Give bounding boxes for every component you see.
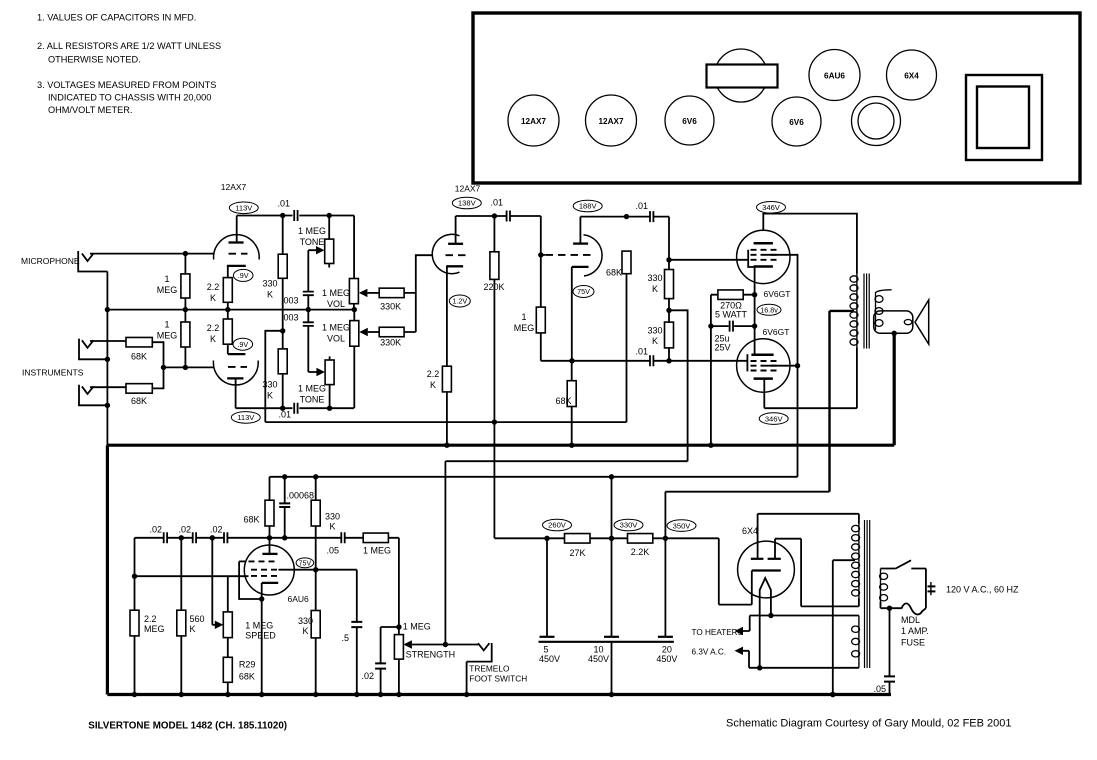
svg-text:2.2: 2.2 [144, 614, 157, 624]
svg-text:1 MEG: 1 MEG [322, 323, 350, 333]
svg-text:6AU6: 6AU6 [288, 594, 310, 604]
junction V1A plate node [280, 213, 285, 218]
resistor 330K (splitter lower) [665, 322, 674, 348]
wire mains right side [925, 569, 927, 609]
potentiometer 1 MEG STRENGTH [394, 635, 403, 695]
svg-text:330: 330 [298, 616, 313, 626]
grommet double circle on chassis [852, 97, 901, 146]
svg-text:220K: 220K [483, 282, 504, 292]
junction screen / 330K [313, 567, 318, 572]
svg-text:K: K [430, 380, 436, 390]
resistor 330K (V1B plate load) [278, 349, 287, 374]
svg-text:.01: .01 [635, 346, 648, 356]
power switch [881, 560, 926, 568]
label MDL 1 AMP. FUSE [901, 615, 929, 648]
label 2.2 K [207, 282, 220, 303]
wires 1 MEG grid leak [540, 255, 542, 361]
V1A grid dashes [229, 253, 248, 255]
svg-text:OTHERWISE NOTED.: OTHERWISE NOTED. [48, 55, 141, 65]
svg-text:2. ALL RESISTORS ARE 1/2 WATT: 2. ALL RESISTORS ARE 1/2 WATT UNLESS [37, 41, 221, 51]
wires 2.2K V1A / cathode elbow [227, 266, 229, 310]
svg-text:TREMELO: TREMELO [469, 663, 510, 673]
svg-text:SILVERTONE MODEL 1482 (CH. 185: SILVERTONE MODEL 1482 (CH. 185.11020) [88, 721, 287, 732]
label 330 K [647, 273, 662, 294]
6X4 filament [760, 578, 771, 668]
microphone jack J1 [78, 251, 107, 272]
V3 plate bar [754, 242, 773, 245]
capacitor .01 (cathode coupling) [650, 355, 653, 366]
svg-text:TONE: TONE [300, 237, 325, 247]
voltage callout 1.2V (V2A cathode) [449, 295, 470, 307]
wires 330K V1B plate load [282, 331, 284, 408]
V5 cathode [262, 583, 279, 599]
wires 1 MEG V1B [184, 310, 186, 368]
svg-text:3. VOLTAGES MEASURED FROM POIN: 3. VOLTAGES MEASURED FROM POINTS [37, 80, 216, 90]
tube V1A 12AX7 envelope [214, 235, 260, 260]
V1B plate bar [227, 377, 243, 379]
V2B grid dashes [546, 254, 591, 256]
svg-text:1 MEG: 1 MEG [363, 546, 391, 556]
tube socket 6V6 (first) [665, 96, 714, 145]
ground line first stage [107, 309, 354, 311]
wires 220K [493, 216, 495, 538]
svg-text:.05: .05 [326, 546, 339, 556]
svg-text:K: K [267, 290, 273, 300]
V4 grid bracket [746, 354, 748, 371]
capacitor .01 (V1A coupling) [294, 210, 297, 221]
svg-text:68K: 68K [243, 515, 259, 525]
resistor 330K (tremolo screen) [311, 611, 320, 638]
tone pot 2 wiper arrow [316, 368, 325, 376]
label 330 K [298, 616, 313, 636]
capacitor .01 (V2B plate coupling) [650, 211, 653, 222]
label 2.2 K [427, 369, 440, 390]
svg-text:2.2: 2.2 [427, 369, 440, 379]
svg-text:.00068: .00068 [287, 491, 315, 501]
note 2: resistors wattage [37, 41, 221, 65]
tube 6X4 envelope [738, 541, 795, 598]
junction 68K on bus [569, 443, 574, 448]
svg-text:120 V A.C., 60 HZ: 120 V A.C., 60 HZ [946, 585, 1019, 595]
wire V5 cathode to ground bus [261, 599, 263, 695]
junction .00068 bottom [282, 535, 287, 540]
junction 330K tremolo top [313, 474, 318, 479]
output transformer center tap wire [830, 311, 855, 492]
svg-text:.9V: .9V [237, 340, 248, 349]
svg-text:.01: .01 [277, 199, 290, 209]
svg-text:75V: 75V [299, 561, 312, 568]
junction 68K plate load top [624, 214, 629, 219]
junction splitter top (V3 grid) [666, 257, 671, 262]
V1B cathode bar [228, 353, 246, 355]
svg-text:75V: 75V [577, 287, 590, 296]
svg-text:2.2K: 2.2K [631, 547, 650, 557]
wire 68K plate load to B+ line [265, 274, 626, 422]
svg-text:MEG: MEG [144, 624, 165, 634]
V3 grid dashes [751, 249, 777, 251]
svg-text:560: 560 [190, 614, 205, 624]
svg-text:K: K [652, 284, 658, 294]
svg-text:FOOT SWITCH: FOOT SWITCH [469, 674, 527, 684]
wires 1 MEG V1A [184, 254, 186, 310]
junction 330V node [609, 536, 614, 541]
resistor 2.2K (V1B cathode) [223, 319, 232, 344]
resistor 2.2K (filter) [628, 534, 653, 544]
resistor 330K (tremolo feedback) [311, 500, 320, 526]
capacitor .5 (screen bypass) [351, 570, 362, 695]
mains plug prongs [928, 582, 936, 595]
capacitor .003 (instrument tone) [303, 322, 314, 326]
wire screens 330V rail [270, 476, 798, 478]
svg-text:6V6: 6V6 [682, 117, 697, 126]
svg-text:6X4: 6X4 [904, 71, 919, 80]
tube V3 6V6GT envelope [737, 230, 790, 283]
wire filter common to ground bus [611, 642, 613, 695]
svg-text:.01: .01 [635, 201, 648, 211]
label TREMELO FOOT SWITCH [469, 663, 527, 683]
wires 330K tremolo [315, 477, 317, 570]
svg-text:K: K [302, 626, 308, 636]
wire 350V rail to output transformer [665, 491, 829, 493]
filter capacitor common plate [539, 641, 674, 643]
V2A grid dashes [446, 254, 466, 256]
capacitor .003 (mic tone) [303, 292, 314, 296]
V5 plate bar [262, 553, 277, 555]
instrument jack J3 [79, 385, 107, 406]
svg-text:68K: 68K [556, 396, 572, 406]
capacitor 25u bypass [730, 321, 733, 332]
svg-text:MEG: MEG [157, 285, 178, 295]
svg-text:.003: .003 [281, 296, 299, 306]
speaker [874, 300, 929, 344]
junctions on ground line [183, 307, 188, 312]
wire V5 plate [269, 538, 271, 554]
label 1 MEG [514, 312, 535, 333]
svg-text:FUSE: FUSE [901, 638, 925, 648]
power transformer mains winding [880, 569, 888, 606]
svg-text:450V: 450V [588, 654, 609, 664]
voltage callout 350V [667, 520, 696, 532]
ground bus (upper) [107, 444, 894, 447]
wires splitter lower [668, 310, 670, 361]
capacitor .05 (line filter) [884, 608, 895, 694]
potentiometer 1 MEG VOL (instrument channel) [350, 310, 359, 409]
svg-text:OHM/VOLT METER.: OHM/VOLT METER. [48, 105, 132, 115]
heater arrow 2 [735, 647, 744, 655]
svg-text:MEG: MEG [514, 323, 535, 333]
junction 270 ohm return on bus [708, 443, 713, 448]
voltage callout 260V [543, 519, 572, 531]
svg-text:68K: 68K [606, 267, 622, 277]
resistor 68K (instrument jack upper) [126, 337, 152, 347]
junction strength top [396, 624, 401, 629]
wire mains bottom to winding [881, 602, 890, 608]
wires 560K [180, 538, 182, 695]
tube V5 6AU6 envelope [244, 545, 294, 595]
svg-text:12AX7: 12AX7 [455, 184, 481, 194]
resistor 2.2 MEG (tremolo grid) [130, 610, 139, 636]
svg-text:.02: .02 [178, 525, 191, 535]
svg-text:5 WATT: 5 WATT [715, 310, 747, 320]
svg-text:1 MEG: 1 MEG [403, 622, 431, 632]
svg-text:.9V: .9V [238, 271, 249, 280]
output transformer rectangle on chassis [707, 65, 778, 88]
wire V2B plate line [580, 217, 669, 260]
label 5 450V [539, 644, 560, 664]
wires 330K screen [315, 570, 317, 695]
junction tone tap [327, 213, 332, 218]
svg-text:2.2: 2.2 [207, 282, 220, 292]
label 25u 25V [715, 334, 731, 353]
svg-text:346V: 346V [762, 203, 781, 212]
wire R29 to ground bus [227, 682, 229, 694]
wire V2A plate node to V2B grid [540, 216, 542, 255]
wire V1B plate to coupling node [236, 378, 354, 408]
junction tremolo grid bus [132, 574, 137, 579]
V3 grid bracket [748, 250, 754, 267]
output transformer primary winding [850, 274, 858, 348]
junction 330K plate load lower [280, 406, 285, 411]
svg-text:TONE: TONE [300, 395, 325, 405]
label 330 K [325, 512, 340, 532]
output transformer core [864, 274, 869, 349]
junction speaker return [892, 331, 897, 336]
fuse MDL 1 AMP [890, 603, 926, 614]
svg-text:1 MEG: 1 MEG [298, 226, 326, 236]
svg-text:68K: 68K [239, 672, 255, 682]
svg-text:1: 1 [521, 312, 526, 322]
strength pot wiper arrow [403, 640, 478, 648]
wire 350V to rectifier cathode [664, 492, 666, 539]
capacitor .05 (tremolo output) [341, 532, 344, 543]
svg-text:330: 330 [647, 326, 662, 336]
voltage callout 113V (V1A plate) [229, 202, 258, 214]
6X4 cathode [752, 569, 781, 571]
heater top lead [742, 616, 859, 632]
chassis layout box [473, 13, 1080, 183]
tube V2A 12AX7 envelope [432, 234, 459, 273]
svg-text:6V6GT: 6V6GT [763, 327, 790, 337]
label 1 MEG [157, 320, 178, 341]
svg-text:.05: .05 [873, 684, 886, 694]
junction V5 cathode [259, 596, 264, 601]
junction cathode network [569, 358, 574, 363]
junction B+ feed on plate-load line [492, 419, 497, 424]
node V1B grid junction [183, 365, 188, 370]
label 330 K [262, 380, 277, 401]
svg-text:2.2: 2.2 [207, 323, 220, 333]
wire V4 plate to output transformer [764, 348, 857, 409]
V1A cathode bar [227, 265, 246, 267]
label 1 MEG TONE [298, 226, 326, 247]
svg-text:6V6GT: 6V6GT [764, 289, 791, 299]
svg-text:450V: 450V [539, 654, 560, 664]
svg-text:.02: .02 [149, 525, 162, 535]
capacitor .01 (V1B coupling) [294, 403, 297, 414]
svg-text:68K: 68K [131, 352, 147, 362]
wire mixer to V2A grid [404, 255, 433, 332]
tube V2B 12AX7 envelope [584, 235, 603, 276]
power transformer HV winding [852, 524, 860, 599]
voltage callout 75V (V2B cathode) [573, 286, 594, 298]
speed pot wiper arrow [212, 538, 223, 629]
wire cathode chain to V4 [754, 295, 756, 355]
label 330 K [647, 326, 662, 347]
voltage callout 346V (V3 plate) [757, 202, 786, 214]
capacitor .02 (phase shift 2) [193, 532, 196, 543]
junction filament to heater top lead [768, 613, 773, 618]
svg-text:.01: .01 [278, 410, 291, 420]
resistor 330K (splitter upper) [665, 270, 674, 299]
wire V3 screen to rail [767, 255, 798, 477]
potentiometer 1 MEG TONE (instrument channel) [325, 356, 334, 408]
wire jack J3 to 68K [90, 386, 126, 388]
wire V1A plate to coupling node [237, 216, 354, 243]
vol pot 2 wiper arrow [359, 328, 379, 336]
capacitor .02 (phase shift 3) [224, 532, 227, 543]
wires 68K tremolo [269, 477, 271, 538]
svg-text:12AX7: 12AX7 [521, 117, 546, 126]
junction 560K tap [179, 535, 184, 540]
svg-text:138V: 138V [458, 199, 477, 208]
resistor 68K (tremolo plate load) [265, 500, 274, 526]
junction tremolo plate node [267, 535, 272, 540]
junctions on lower ground bus [132, 692, 137, 697]
junction plate load join [280, 328, 285, 333]
svg-text:MDL: MDL [901, 615, 920, 625]
wire V4 screen tap [767, 365, 798, 367]
svg-text:5: 5 [543, 644, 548, 654]
svg-text:.5: .5 [341, 633, 349, 643]
note 3: voltage measurement [37, 80, 216, 115]
svg-text:27K: 27K [569, 548, 585, 558]
svg-text:12AX7: 12AX7 [221, 182, 247, 192]
junction .00068 top [282, 474, 287, 479]
svg-text:.003: .003 [281, 312, 299, 322]
6X4 right plate [768, 539, 859, 607]
heater bottom lead [742, 651, 859, 668]
wires 270 ohm [711, 295, 755, 446]
svg-text:330: 330 [647, 273, 662, 283]
svg-text:330: 330 [262, 279, 277, 289]
svg-text:K: K [329, 522, 335, 532]
svg-text:VOL: VOL [327, 299, 345, 309]
label 270ohm 5 WATT [715, 301, 747, 320]
wire mic jack tip to V1A grid [90, 253, 214, 255]
wire phase shift row [135, 538, 399, 635]
svg-text:6.3V A.C.: 6.3V A.C. [692, 648, 727, 657]
voltage callout 138V (V2A plate) [452, 197, 481, 209]
svg-text:450V: 450V [656, 654, 677, 664]
label 560 K [190, 614, 205, 634]
resistor R29 68K [223, 657, 232, 682]
V4 cathode bar [751, 353, 773, 356]
wire B+ feed to V1 plate loads [265, 331, 282, 422]
potentiometer 1 MEG SPEED [223, 576, 232, 657]
capacitor .02 (phase shift 1) [164, 532, 167, 543]
tube V4 6V6GT envelope [737, 339, 790, 392]
tube socket 12AX7 (second) [586, 95, 637, 146]
wire V2B grid entry [541, 254, 546, 256]
junction V3 cathode / 270 ohm [752, 292, 757, 297]
V2A plate bar [448, 243, 463, 245]
tube socket 12AX7 (first) [508, 95, 559, 146]
svg-text:113V: 113V [235, 204, 253, 213]
label 2.2 K [207, 323, 220, 344]
wire V2B cathode line to .01 [541, 360, 669, 362]
svg-text:6V6: 6V6 [789, 118, 804, 127]
node V1A grid junction [183, 251, 188, 256]
svg-text:68K: 68K [131, 396, 147, 406]
junction tremolo injection [443, 642, 448, 647]
wire splitter mid to tremolo injection [669, 310, 688, 461]
voltage callout 188V (V2B plate) [573, 200, 602, 212]
svg-text:TO HEATERS: TO HEATERS [692, 628, 744, 637]
wire V2B cathode drop [571, 267, 573, 361]
filter capacitor 5/450V [540, 538, 555, 637]
voltage callout 330V [614, 519, 643, 531]
wires splitter upper [668, 260, 670, 311]
instrument jack J2 [79, 339, 107, 360]
wire B+ row [494, 538, 751, 604]
svg-text:1 MEG: 1 MEG [245, 621, 273, 631]
junction fuse / line cap [887, 606, 892, 611]
svg-text:1.2V: 1.2V [452, 297, 467, 306]
svg-text:20: 20 [662, 644, 672, 654]
resistor 330K (V1A plate load) [278, 254, 287, 278]
svg-text:SPEED: SPEED [245, 631, 276, 641]
svg-text:INSTRUMENTS: INSTRUMENTS [22, 368, 84, 378]
wires 68K cathode load [571, 361, 573, 445]
wire V3 cathode drop [754, 267, 756, 295]
wire V4 grid line [669, 360, 747, 362]
svg-text:K: K [190, 624, 196, 634]
resistor 220K (V2A plate load) [490, 252, 499, 280]
V3 cathode bar [754, 265, 773, 268]
svg-text:188V: 188V [579, 202, 598, 211]
junction 25u right [752, 323, 757, 328]
junction 2.2K V2A on bus [444, 443, 449, 448]
ground bus left vertical [106, 272, 108, 446]
power transformer center tap to ground [833, 560, 855, 694]
wires 2.2K V1B / cathode elbow [227, 310, 229, 355]
label 1 MEG VOL [322, 288, 350, 309]
svg-text:K: K [267, 391, 273, 401]
power transformer rectangles on chassis [966, 75, 1042, 160]
voltage callout .9V (V1A cathode) [233, 269, 253, 281]
junction 330V riser [609, 474, 614, 479]
junction filament to heater bottom lead [757, 665, 762, 670]
wire V3 plate to output transformer [763, 214, 857, 274]
vol pot 1 wiper arrow [359, 289, 379, 297]
svg-text:1 MEG: 1 MEG [322, 288, 350, 298]
resistor 1 MEG (V1B grid) [181, 322, 190, 347]
resistor 1 MEG (V1A grid) [181, 274, 190, 298]
svg-text:K: K [210, 334, 216, 344]
svg-text:.02: .02 [361, 671, 374, 681]
junction 25u left [708, 323, 713, 328]
svg-text:INDICATED TO CHASSIS WITH 20,0: INDICATED TO CHASSIS WITH 20,000 [48, 92, 211, 102]
resistor 2.2K (V1A cathode) [223, 278, 232, 303]
svg-text:330K: 330K [380, 338, 401, 348]
resistor 68K (V2B plate load) [622, 251, 631, 274]
wire .003 to ground line [307, 295, 309, 309]
voltage callout 75V (V5) [296, 558, 314, 568]
junction 350V node [663, 536, 668, 541]
V4 grid dashes [751, 360, 777, 362]
wires .003 instrument tone [308, 310, 316, 372]
svg-text:MICROPHONE: MICROPHONE [21, 256, 80, 266]
